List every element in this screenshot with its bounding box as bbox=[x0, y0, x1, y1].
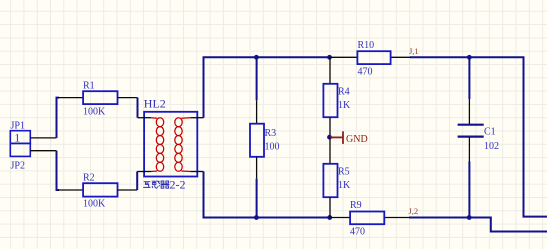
node junction top R4/R10 bbox=[327, 55, 332, 60]
svg-text:R10: R10 bbox=[358, 40, 375, 51]
resistor R4 bbox=[323, 57, 351, 136]
svg-text:R1: R1 bbox=[83, 81, 95, 92]
secondary winding bbox=[175, 118, 191, 172]
svg-text:R2: R2 bbox=[83, 173, 95, 184]
resistor R2 bbox=[58, 173, 137, 210]
pin 1 top-left bbox=[138, 117, 152, 119]
node junction top R3 bbox=[254, 55, 259, 60]
wire: JP1 up to R1 row bbox=[57, 98, 60, 138]
wire: JP2 down to R2 row bbox=[57, 151, 60, 190]
wire: top rail from HL2 corner to R4/R10 junction bbox=[204, 57, 330, 117]
node junction top C1 bbox=[467, 55, 472, 60]
node junction bottom R5/R9 bbox=[327, 215, 332, 220]
svg-text:R5: R5 bbox=[338, 167, 350, 178]
svg-text:R9: R9 bbox=[350, 200, 362, 211]
node junction bottom C1 bbox=[467, 215, 472, 220]
resistor R10 bbox=[330, 40, 411, 77]
svg-text:1K: 1K bbox=[338, 100, 351, 111]
svg-text:100: 100 bbox=[265, 141, 280, 152]
svg-text:102: 102 bbox=[484, 141, 499, 152]
pin 2 bottom-left bbox=[137, 171, 151, 173]
svg-text:1: 1 bbox=[14, 131, 20, 145]
svg-text:2-2: 2-2 bbox=[170, 178, 186, 192]
svg-text:R4: R4 bbox=[338, 87, 350, 98]
svg-text:100K: 100K bbox=[83, 106, 106, 117]
wire: R1 to HL2 top-left pin bbox=[137, 98, 139, 118]
svg-text:J,2: J,2 bbox=[409, 206, 419, 216]
svg-text:JP2: JP2 bbox=[11, 161, 25, 172]
svg-text:100K: 100K bbox=[83, 198, 106, 209]
wire: HL2 bottom-right down to bottom rail bbox=[204, 172, 331, 218]
ground GND power port bbox=[327, 131, 368, 145]
svg-text:470: 470 bbox=[350, 227, 365, 238]
value label 互感器2-2 bbox=[143, 181, 169, 189]
pin 3 top-right bbox=[190, 117, 203, 119]
resistor R3 bbox=[250, 57, 280, 217]
resistor R1 bbox=[58, 81, 138, 118]
svg-text:1K: 1K bbox=[338, 180, 351, 191]
svg-text:C1: C1 bbox=[484, 127, 496, 138]
wire: R2 up to HL2 bottom-left pin bbox=[136, 172, 138, 191]
resistor R9 bbox=[330, 200, 410, 237]
pin 4 bottom-right bbox=[190, 171, 203, 173]
svg-text:GND: GND bbox=[346, 134, 368, 145]
svg-text:JP1: JP1 bbox=[11, 120, 25, 131]
connector JP2 bbox=[10, 143, 56, 171]
transformer HL2 bbox=[137, 97, 203, 192]
svg-text:R3: R3 bbox=[265, 128, 277, 139]
svg-text:J,1: J,1 bbox=[409, 46, 419, 56]
primary winding bbox=[151, 118, 164, 172]
capacitor C1 bbox=[458, 57, 499, 217]
node junction bottom R3 bbox=[254, 215, 259, 220]
wire: top rail right segment R10 to right edge corner bbox=[410, 57, 547, 216]
connector JP1 bbox=[10, 120, 56, 144]
resistor R5 bbox=[323, 137, 351, 217]
wire: bottom rail right of R9 with step down to edge bbox=[409, 218, 547, 232]
svg-text:470: 470 bbox=[358, 66, 373, 77]
svg-text:HL2: HL2 bbox=[144, 97, 166, 111]
